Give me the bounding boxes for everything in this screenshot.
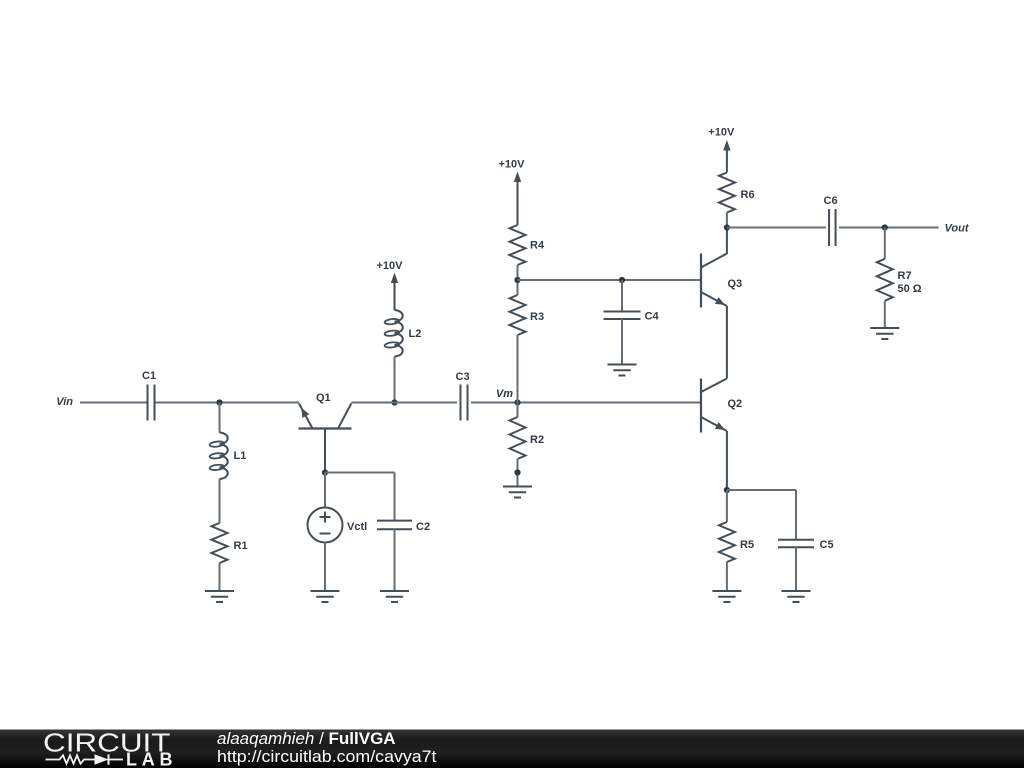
node junction at C4	[619, 277, 625, 283]
wire C2 top lead	[394, 473, 396, 521]
transistor Q1	[299, 392, 352, 429]
footer title text	[217, 729, 396, 748]
svg-text:R1: R1	[234, 540, 248, 552]
node Vm	[496, 388, 521, 406]
transistor Q2	[701, 379, 742, 433]
wire R6 to node	[726, 213, 728, 228]
svg-text:+10V: +10V	[499, 159, 526, 171]
svg-text:L2: L2	[409, 328, 422, 340]
svg-text:R2: R2	[530, 434, 544, 446]
wire bias rail to Q3 base	[518, 279, 701, 281]
node junction Q1 base	[322, 469, 328, 475]
svg-text:alaaqamhieh / FullVGA: alaaqamhieh / FullVGA	[217, 729, 396, 748]
logo LAB wordmark	[126, 750, 173, 768]
footer bar	[0, 730, 1024, 768]
svg-text:Q2: Q2	[728, 398, 743, 410]
wire C4 to ground	[621, 319, 623, 365]
svg-text:C1: C1	[142, 370, 156, 382]
wire C4 top lead	[621, 280, 623, 312]
wire L2 to rail	[394, 357, 396, 403]
svg-text:Vm: Vm	[496, 388, 513, 400]
node junction R5/C5	[724, 487, 730, 493]
logo diode	[95, 754, 124, 764]
inductor L2	[384, 310, 421, 357]
footer url text	[217, 747, 437, 766]
resistor R4	[510, 225, 545, 265]
ground under Vctl	[311, 591, 340, 602]
voltage source Vctl	[308, 508, 368, 543]
svg-text:L1: L1	[234, 450, 247, 462]
logo resistor squiggle	[46, 755, 95, 763]
svg-text:LAB: LAB	[126, 750, 173, 768]
wire junction to Vctl	[324, 473, 326, 508]
svg-text:R7: R7	[898, 270, 912, 282]
node junction below R2	[514, 469, 520, 475]
wire C5 top lead	[795, 490, 797, 540]
svg-text:C3: C3	[456, 371, 470, 383]
node junction at L2	[391, 399, 397, 405]
wire C6 to Vout node	[839, 227, 939, 229]
wire L1 to R1	[219, 479, 221, 523]
node junction at C1/L1	[216, 399, 222, 405]
node Vout label	[945, 223, 970, 235]
ground under R5	[712, 591, 741, 602]
wire Vin to C1	[80, 402, 147, 404]
capacitor C4	[604, 311, 660, 323]
svg-text:Q3: Q3	[728, 278, 743, 290]
svg-text:+10V: +10V	[708, 127, 735, 139]
svg-text:C4: C4	[645, 311, 660, 323]
resistor R7	[877, 259, 922, 301]
wire R7 to ground	[884, 301, 886, 328]
power +10V at L2	[377, 260, 404, 310]
svg-text:C5: C5	[820, 539, 834, 551]
wire R5 to ground	[726, 562, 728, 591]
wire C1 to Q1 emitter	[156, 402, 300, 404]
ground under C5	[782, 591, 811, 602]
wire node to C5 horizontal	[727, 489, 796, 491]
ground under C2	[380, 591, 409, 602]
ground under C4	[608, 365, 637, 376]
wire C5 to ground	[795, 547, 797, 591]
wire C3 to Q2 base	[471, 402, 700, 404]
svg-text:R4: R4	[530, 240, 545, 252]
wire Q2 emitter down	[726, 431, 728, 490]
capacitor C2	[377, 521, 430, 533]
svg-text:+10V: +10V	[377, 260, 404, 272]
logo CIRCUIT wordmark	[43, 730, 171, 758]
wire R1 to ground	[219, 563, 221, 591]
svg-text:Vout: Vout	[945, 223, 970, 235]
wire R3 to Vm	[517, 335, 519, 403]
node junction R4/R3	[514, 277, 520, 283]
power +10V at R6	[708, 127, 735, 173]
resistor R6	[719, 173, 755, 213]
wire C2 to ground	[394, 529, 396, 591]
wire Q3 collector up	[726, 228, 728, 255]
capacitor C6	[824, 195, 838, 246]
capacitor C5	[778, 539, 834, 551]
wire R7 top lead	[884, 228, 886, 259]
wire L1 top lead	[219, 403, 221, 433]
ground under R2	[503, 487, 532, 498]
wire R2 to ground	[517, 459, 519, 487]
capacitor C3	[456, 371, 470, 421]
wire Q1 base lead	[324, 430, 326, 473]
wire node to C6	[727, 227, 826, 229]
power +10V at R4	[499, 159, 526, 226]
wire Vctl to ground	[324, 543, 326, 592]
svg-text:R5: R5	[740, 539, 754, 551]
ground under R7	[870, 328, 899, 339]
wire junction to C2	[325, 472, 395, 474]
node junction at R7	[882, 224, 888, 230]
node Vin label	[56, 396, 73, 408]
resistor R3	[510, 295, 545, 335]
transistor Q3	[701, 254, 742, 308]
wire R4 to R3	[517, 265, 519, 295]
resistor R2	[510, 417, 545, 459]
capacitor C1	[142, 370, 156, 421]
svg-text:50 Ω: 50 Ω	[898, 283, 922, 295]
resistor R5	[719, 522, 754, 562]
inductor L1	[209, 433, 246, 480]
svg-text:Q1: Q1	[316, 392, 331, 404]
svg-text:C2: C2	[416, 521, 430, 533]
wire Q1 collector to C3	[351, 402, 457, 404]
resistor R1	[212, 523, 248, 563]
wire Vm to R2	[517, 403, 519, 418]
svg-text:C6: C6	[824, 195, 838, 207]
wire R5 top lead	[726, 490, 728, 522]
svg-text:R3: R3	[530, 311, 544, 323]
ground under R1	[205, 591, 234, 602]
svg-text:http://circuitlab.com/cavya7t: http://circuitlab.com/cavya7t	[217, 747, 437, 766]
svg-text:R6: R6	[741, 189, 755, 201]
wire Q3 emitter to Q2 collector	[726, 306, 728, 379]
node junction R6/C6	[724, 224, 730, 230]
svg-text:Vin: Vin	[56, 396, 73, 408]
svg-text:Vctl: Vctl	[347, 521, 367, 533]
